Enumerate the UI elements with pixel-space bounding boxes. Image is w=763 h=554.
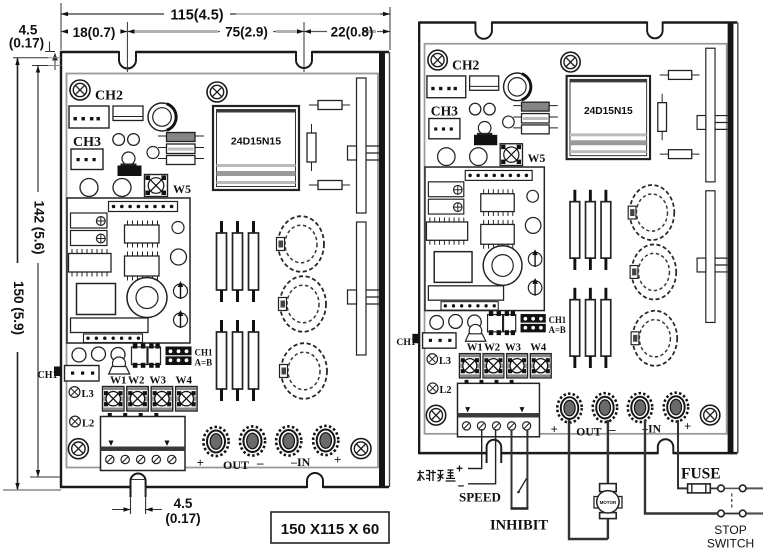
extension line slot1 xyxy=(126,22,128,72)
svg-text:(0.17): (0.17) xyxy=(165,511,200,526)
wire speed plus xyxy=(468,429,482,469)
svg-text:18(0.7): 18(0.7) xyxy=(73,25,116,40)
dimension line 142 xyxy=(37,66,39,478)
svg-text:150 (5.9): 150 (5.9) xyxy=(11,281,26,335)
wire speed minus xyxy=(468,429,496,484)
dimension line 150 xyxy=(17,58,19,490)
wire inhibit bottom xyxy=(511,507,529,510)
svg-text:STOP: STOP xyxy=(714,523,746,537)
fuse F1 xyxy=(688,484,763,493)
tab center cross xyxy=(132,479,146,481)
svg-text:22(0.8): 22(0.8) xyxy=(331,25,374,40)
svg-text:142 (5.6): 142 (5.6) xyxy=(32,200,47,254)
svg-text:75(2.9): 75(2.9) xyxy=(225,25,268,40)
svg-text:FUSE: FUSE xyxy=(681,466,721,483)
svg-text:+: + xyxy=(456,464,463,476)
svg-text:SWITCH: SWITCH xyxy=(707,537,754,551)
mechanical link dashed xyxy=(731,494,733,511)
svg-text:4.5: 4.5 xyxy=(174,496,193,511)
wire motor bottom lead xyxy=(607,519,609,540)
svg-text:(0.17): (0.17) xyxy=(9,36,44,51)
leader 4.5 top-left xyxy=(45,42,55,52)
svg-text:MOTOR: MOTOR xyxy=(600,500,617,505)
label analog input (CJK strokes) xyxy=(418,470,456,481)
motor M1 xyxy=(594,484,622,519)
extension line 142 bottom xyxy=(30,476,61,478)
svg-text:SPEED: SPEED xyxy=(459,490,501,505)
stop switch contacts xyxy=(724,513,739,515)
switch blade inhibit xyxy=(519,479,527,493)
extension line 150 bottom xyxy=(3,489,61,491)
extension line 142 top xyxy=(32,65,48,67)
wire fuse xyxy=(678,420,688,488)
right board view xyxy=(396,21,737,463)
wire inhibit right xyxy=(526,430,528,509)
dimension line 4.5 bottom xyxy=(112,509,162,511)
left board view xyxy=(38,51,390,497)
dimension line 115(4.5) xyxy=(61,13,390,15)
svg-text:115(4.5): 115(4.5) xyxy=(170,8,223,24)
svg-text:150 X115 X 60: 150 X115 X 60 xyxy=(281,521,379,538)
extension line 150 top xyxy=(13,57,48,59)
extension line slot2 xyxy=(303,22,305,72)
size box 150x115x60 xyxy=(271,512,389,543)
wire motor minus xyxy=(607,420,609,484)
extension lines bottom tab xyxy=(131,487,146,514)
extension line right edge top xyxy=(389,7,391,50)
dimension line 18/75/22 xyxy=(61,31,390,33)
tick arrows top-left xyxy=(53,54,57,70)
extension line left edge top xyxy=(60,3,62,50)
wire stop switch xyxy=(645,420,718,514)
svg-text:INHIBIT: INHIBIT xyxy=(490,518,548,534)
wire inhibit left xyxy=(511,430,513,509)
wire motor plus xyxy=(569,420,608,539)
